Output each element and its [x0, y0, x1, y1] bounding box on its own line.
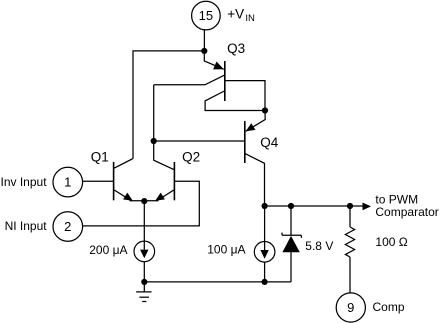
wire 200uA source to ground node [143, 262, 145, 282]
label +VIN [227, 6, 255, 23]
svg-text:9: 9 [347, 300, 354, 315]
node G: zener top [288, 203, 294, 209]
node H: resistor top [347, 203, 353, 209]
pin circle 2 (NI Input) [53, 212, 83, 242]
wire pin1 to Q1 base [83, 180, 114, 182]
svg-text:2: 2 [64, 219, 71, 234]
pin circle 15 (+VIN pin) [192, 1, 221, 30]
svg-text:1: 1 [64, 175, 71, 190]
svg-text:+V: +V [227, 6, 244, 21]
wire VIN node to Q1 collector [133, 51, 204, 159]
wire output node to 100uA source [264, 206, 266, 242]
current source I1 200uA [134, 241, 155, 262]
svg-text:15: 15 [199, 8, 213, 23]
node E: 100uA source bottom [262, 279, 268, 285]
wire pin15 to VIN node [203, 30, 205, 48]
ground [136, 282, 152, 302]
svg-text:NI Input: NI Input [5, 219, 48, 233]
pin circle 9 (Comp) [336, 293, 365, 322]
wire emitter bus Q1-Q2 [130, 200, 159, 202]
svg-text:Comparator: Comparator [375, 205, 438, 219]
transistor Q4 (PNP) [154, 111, 279, 207]
transistor Q1 (NPN) [91, 150, 133, 201]
node C: emitters junction [141, 198, 147, 204]
node B: Q2 collector / Q4 base [151, 138, 157, 144]
label to PWM Comparator [375, 192, 438, 219]
svg-text:100 Ω: 100 Ω [375, 235, 407, 249]
wire output node rail with arrow to PWM comparator [265, 205, 363, 207]
pin circle 1 (Inv Input) [53, 167, 83, 197]
node F: Q4 collector / 100uA top [262, 203, 268, 209]
transistor Q3 (dual-collector PNP) [154, 41, 265, 110]
current source I2 100uA [254, 242, 275, 263]
svg-text:to PWM: to PWM [375, 192, 418, 206]
svg-text:100 μA: 100 μA [207, 242, 245, 256]
svg-text:IN: IN [245, 13, 255, 24]
svg-text:Comp: Comp [373, 300, 405, 314]
wire pin2 to Q2 base [83, 181, 200, 226]
node VIN junction [201, 48, 207, 54]
transistor Q2 (NPN) [154, 141, 200, 201]
svg-text:5.8 V: 5.8 V [305, 239, 333, 253]
wire 100uA source to node E [264, 262, 266, 282]
resistor R1 100 ohm [345, 206, 354, 293]
svg-text:200 μA: 200 μA [89, 243, 127, 257]
node A: Q3 base / Q3 collector2 / Q4 emitter [262, 107, 268, 113]
wire Q3 collector1 down to node B [153, 85, 155, 141]
svg-text:Q3: Q3 [227, 41, 245, 56]
svg-text:Q1: Q1 [91, 150, 109, 165]
svg-text:Inv Input: Inv Input [1, 175, 48, 189]
svg-text:Q4: Q4 [260, 135, 279, 150]
wire node C to 200uA source [143, 201, 145, 241]
zener diode D1 5.8V [282, 206, 301, 282]
svg-text:Q2: Q2 [182, 150, 200, 165]
wire bottom rail ground node to zener anode [144, 281, 291, 283]
node D: ground junction [141, 279, 147, 285]
